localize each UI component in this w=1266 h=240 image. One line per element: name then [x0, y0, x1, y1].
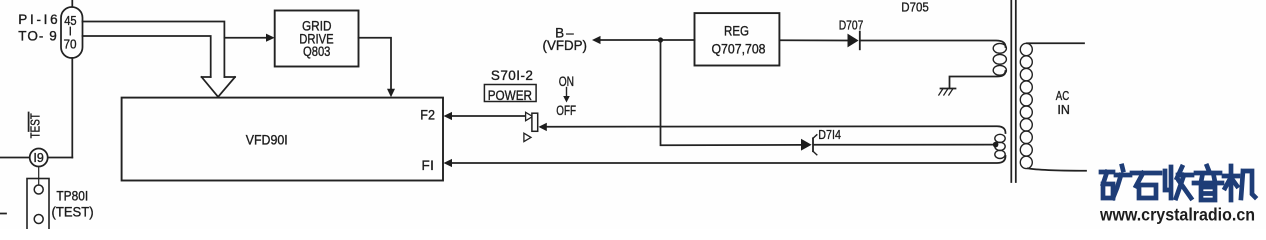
- svg-text:FI: FI: [422, 158, 434, 173]
- svg-text:Q803: Q803: [303, 44, 330, 59]
- svg-text:(TEST): (TEST): [52, 205, 94, 220]
- svg-text:ON: ON: [559, 74, 574, 89]
- svg-text:TEST: TEST: [28, 113, 43, 138]
- svg-text:TO- 9: TO- 9: [18, 29, 57, 44]
- svg-text:AC: AC: [1056, 89, 1069, 103]
- svg-text:OFF: OFF: [556, 103, 576, 118]
- svg-text:www.crystalradio.cn: www.crystalradio.cn: [1099, 204, 1255, 224]
- svg-text:VFD90I: VFD90I: [246, 132, 288, 147]
- svg-text:S70I-2: S70I-2: [491, 68, 533, 83]
- svg-text:D705: D705: [901, 0, 929, 14]
- svg-text:70: 70: [64, 36, 77, 51]
- svg-text:45: 45: [64, 13, 76, 28]
- svg-text:PI-I6: PI-I6: [18, 12, 57, 27]
- svg-text:POWER: POWER: [488, 88, 533, 103]
- svg-text:Q707,708: Q707,708: [712, 41, 766, 56]
- svg-text:D7I4: D7I4: [818, 127, 841, 142]
- svg-text:F2: F2: [420, 108, 435, 123]
- svg-text:TP80I: TP80I: [56, 188, 88, 203]
- svg-text:REG: REG: [724, 23, 749, 38]
- svg-text:IN: IN: [1057, 103, 1070, 117]
- svg-text:(VFDP): (VFDP): [543, 38, 588, 53]
- svg-text:I9: I9: [33, 150, 43, 165]
- svg-text:D707: D707: [839, 18, 864, 33]
